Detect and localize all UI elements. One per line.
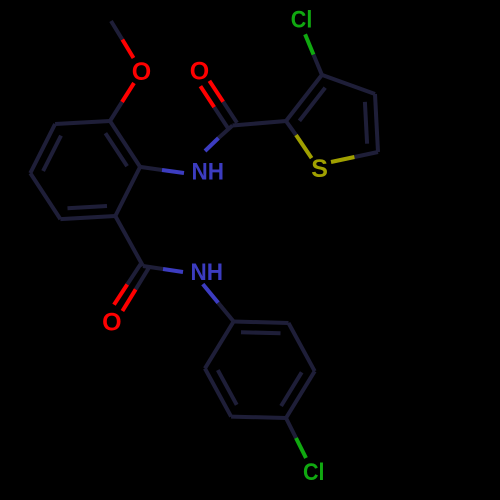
bond C2am=O2 double, line B carbon half (136, 268, 149, 290)
bond C2am=O2 double, line A carbon half (127, 264, 140, 284)
bond C4a-Cl2 carbon half (286, 418, 296, 438)
bond C4p-C5p (aromatic ring 1) (30, 173, 60, 219)
bond C3p-C4p (aromatic ring 1) (60, 216, 115, 219)
bond C2a-C3a (aromatic ring 2) (289, 323, 315, 371)
bond C3t-Cl1 carbon half (314, 55, 322, 75)
bond C5p-C6p (aromatic ring 1) (30, 124, 55, 173)
svg-text:O: O (102, 309, 121, 337)
bond N1-C1 blue half (205, 138, 219, 151)
svg-text:O: O (132, 58, 151, 86)
bond N2-C1a carbon half (218, 303, 233, 322)
svg-text:NH: NH (191, 259, 224, 286)
bond C6a-C1a (aromatic ring 2) (205, 322, 234, 369)
bond N2-C1a blue half (203, 284, 218, 303)
bond C1-C2t (233, 121, 287, 126)
bond C2p-C3p (aromatic ring 1) (115, 167, 140, 216)
bond C2am-N2 blue half (163, 269, 183, 272)
svg-text:O: O (190, 58, 209, 86)
bond C2t-C3t (aromatic) (286, 75, 322, 121)
bond C2p-N1 blue half (162, 170, 184, 173)
bond C2p-N1 carbon half (140, 167, 162, 170)
bond C4t-C5t (aromatic) (375, 94, 378, 152)
svg-text:NH: NH (192, 159, 225, 186)
bond C1=O1c double, line A carbon half (214, 107, 228, 128)
bond C3t-Cl1 green half (305, 34, 313, 54)
bond C1=O1c double, line B carbon half (223, 102, 237, 123)
bond C3t-C4t (322, 75, 375, 94)
bond C2am-N2 carbon half (143, 266, 163, 269)
svg-text:S: S (311, 155, 328, 183)
bond O1-CH3 carbon half (111, 21, 122, 40)
bond C6p-C1p (aromatic ring 1) (55, 121, 110, 124)
svg-text:Cl: Cl (291, 7, 313, 34)
bond C1a-C2a (aromatic ring 2) (234, 322, 289, 324)
bond C4a-Cl2 green half (296, 438, 306, 458)
bond C2am=O2 double, line B red half (122, 289, 135, 311)
bond C5a-C6a (aromatic ring 2) (205, 368, 231, 416)
bond C3a-C4a (aromatic ring 2) (286, 371, 315, 418)
svg-text:Cl: Cl (303, 459, 325, 486)
bond N1-C1 carbon half (219, 126, 233, 139)
bond C1=O1c double, line A red half (200, 86, 214, 107)
bond O1-C1p carbon half (110, 102, 122, 121)
bond O1-C1p red half (122, 83, 134, 102)
bond C4a-C5a (aromatic ring 2) (231, 417, 286, 418)
bond C3p-C2am (115, 216, 143, 266)
bond C1=O1c double, line B red half (209, 81, 223, 102)
bond S-C2t olive half (296, 135, 312, 158)
bond C5t-S olive half (331, 157, 355, 162)
bond O1-CH3 red half (122, 40, 133, 59)
bond S-C2t carbon half (286, 121, 296, 135)
bond C5t-S carbon half (355, 152, 379, 157)
bond C1p-C2p (aromatic ring 1) (110, 121, 140, 167)
bond C2am=O2 double, line A red half (114, 284, 127, 304)
